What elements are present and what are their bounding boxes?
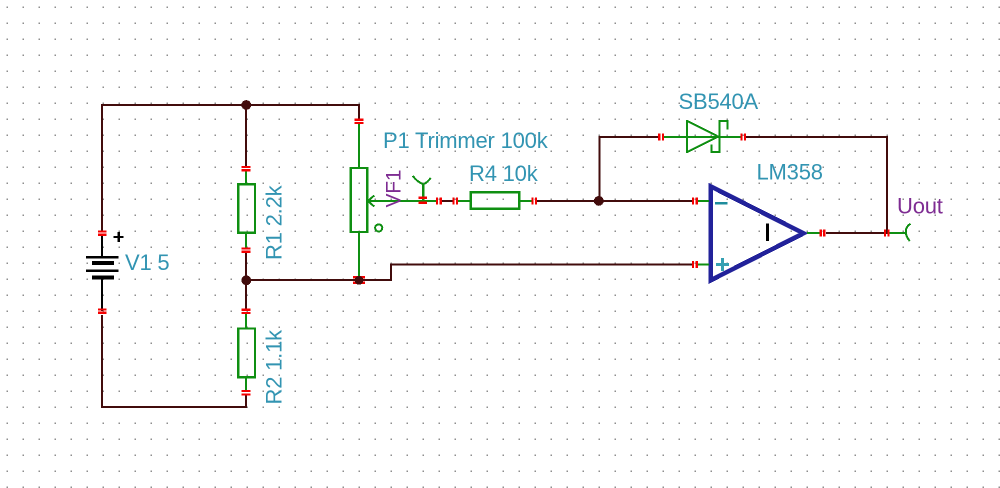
wire plus input horizontal bbox=[390, 263, 693, 265]
resistor R2 bbox=[238, 314, 255, 391]
wire op-amp out to corner bbox=[826, 232, 888, 234]
wire R1 bottom to mid node bbox=[245, 252, 247, 280]
svg-text:V1 5: V1 5 bbox=[125, 250, 169, 275]
wire bottom horizontal bbox=[101, 406, 247, 408]
wire top from battery to trimmer bbox=[101, 104, 360, 106]
wire R2 bottom bbox=[245, 395, 247, 408]
svg-text:R2 1.1k: R2 1.1k bbox=[262, 329, 287, 405]
wire feedback vertical bbox=[886, 136, 888, 234]
battery plus sign bbox=[114, 232, 124, 242]
pin-end ticks battery bottom bbox=[98, 308, 107, 310]
wire mid horizontal node to step bbox=[246, 279, 392, 281]
resistor R4 bbox=[457, 192, 532, 208]
pin-end ticks trimmer top bbox=[353, 119, 442, 284]
wire wiper to R4 bbox=[441, 200, 453, 202]
op-amp plus marker bbox=[716, 258, 729, 271]
pin-end ticks R1 bbox=[242, 166, 251, 253]
svg-text:LM358: LM358 bbox=[757, 160, 823, 185]
wire node up to diode bbox=[598, 137, 600, 202]
pin-end ticks trimmer bottom on junction bbox=[353, 276, 365, 279]
CCW end marker o bbox=[375, 224, 382, 231]
wire left vertical battery top bbox=[101, 104, 103, 231]
wire battery bottom vertical bbox=[101, 315, 103, 408]
pin-end ticks VF1 bbox=[418, 197, 427, 204]
pin-end ticks op-amp bbox=[692, 198, 825, 269]
svg-text:P1 Trimmer 100k: P1 Trimmer 100k bbox=[383, 128, 549, 153]
output terminal Uout bbox=[889, 224, 911, 241]
svg-text:R1 2.2k: R1 2.2k bbox=[262, 184, 287, 260]
pin-end ticks wiper end bbox=[436, 198, 438, 205]
wire R4 to op-amp minus bbox=[537, 200, 693, 202]
wire step vertical bbox=[390, 265, 392, 282]
pin-end ticks output terminal bbox=[884, 230, 890, 237]
node junction mid (R1/R2) bbox=[241, 275, 251, 285]
schottky cathode bar bbox=[719, 120, 721, 153]
wiper arrow bbox=[368, 200, 436, 202]
pin-end ticks R2 bbox=[242, 309, 251, 396]
pin-end ticks R4 bbox=[452, 198, 537, 205]
svg-text:VF1: VF1 bbox=[383, 170, 406, 208]
node junction R4/diode/op-amp minus bbox=[594, 196, 604, 206]
svg-text:R4 10k: R4 10k bbox=[469, 161, 539, 186]
probe VF1 bbox=[413, 176, 431, 200]
node junction trimmer bottom bbox=[355, 276, 364, 285]
wire R1 top bbox=[245, 105, 247, 167]
op-amp internal bar bbox=[766, 223, 769, 241]
potentiometer P1 bbox=[351, 123, 436, 280]
op-amp output pin bbox=[807, 232, 820, 234]
op-amp LM358 bbox=[698, 186, 820, 280]
op-amp minus marker bbox=[715, 202, 728, 205]
pin-end ticks diode bbox=[658, 134, 746, 141]
battery V1 bbox=[86, 232, 124, 311]
wire diode right to feedback corner bbox=[746, 136, 888, 138]
wire R2 top bbox=[245, 280, 247, 310]
op-amp input pins bbox=[698, 200, 709, 202]
anode bar / triangle bbox=[686, 120, 688, 153]
pin-end ticks battery top bbox=[98, 230, 107, 314]
node junction top (R1/battery) bbox=[241, 100, 251, 110]
svg-text:SB540A: SB540A bbox=[679, 89, 759, 114]
resistor R1 bbox=[238, 171, 255, 249]
diode SB540A (schottky) bbox=[663, 120, 741, 153]
wire diode left bbox=[599, 136, 660, 138]
wire trimmer top bbox=[358, 104, 360, 119]
svg-text:Uout: Uout bbox=[897, 194, 943, 219]
